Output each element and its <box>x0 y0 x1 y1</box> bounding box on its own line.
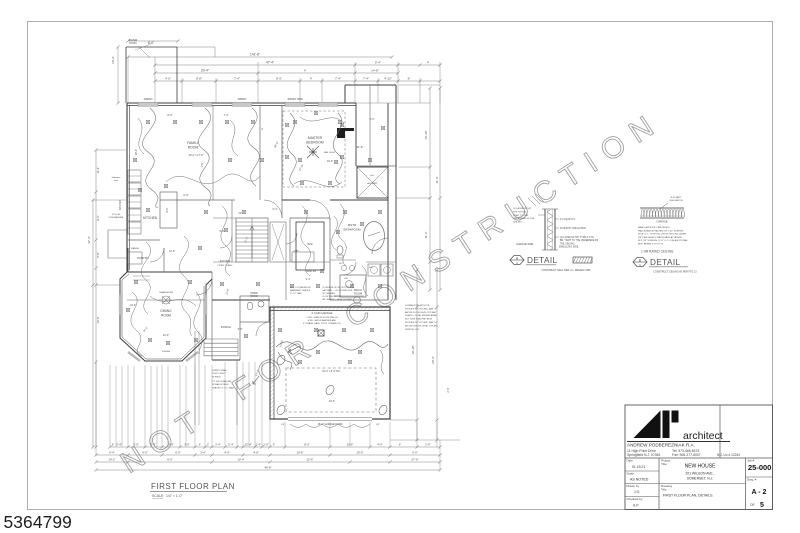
svg-text:12'-0": 12'-0" <box>163 334 169 337</box>
svg-text:3'-0": 3'-0" <box>238 328 243 331</box>
svg-text:DETAIL: DETAIL <box>650 258 681 267</box>
bathtub <box>364 222 385 251</box>
svg-text:ROOM: ROOM <box>161 314 171 318</box>
detail B ceiling strip <box>640 207 684 209</box>
pantry2 <box>285 262 287 300</box>
entry / porch <box>211 300 213 360</box>
small right side marks <box>396 197 430 199</box>
svg-text:N.J. Lic # 12244: N.J. Lic # 12244 <box>717 453 740 457</box>
svg-text:20'-4" x 17'-0": 20'-4" x 17'-0" <box>189 154 204 157</box>
svg-text:w/drawer: w/drawer <box>112 176 121 179</box>
svg-text:1 HR RATED CEILING: 1 HR RATED CEILING <box>641 250 674 254</box>
svg-text:P.T. WD & RAILING: P.T. WD & RAILING <box>212 380 231 383</box>
svg-text:R-30 BATT: R-30 BATT <box>671 196 682 199</box>
svg-text:14'-2": 14'-2" <box>108 458 115 462</box>
svg-text:WALLBOARD ATTACHED W/ 1 1/4" S: WALLBOARD ATTACHED W/ 1 1/4" SCREWS <box>638 229 684 232</box>
svg-text:42'-4": 42'-4" <box>87 236 91 244</box>
svg-text:5364799: 5364799 <box>4 512 72 532</box>
svg-text:8'-0": 8'-0" <box>304 443 310 447</box>
insulation batt zigzag <box>548 210 553 250</box>
dimension line 20-4 14-8 <box>155 72 398 74</box>
wavy curves central hall <box>221 206 231 276</box>
svg-text:KITCHEN: KITCHEN <box>119 199 122 210</box>
svg-text:6": 6" <box>408 77 411 81</box>
garage door opening <box>288 418 372 420</box>
svg-text:16'-4" x 8'-4" DO: 16'-4" x 8'-4" DO <box>322 370 340 373</box>
svg-text:PROVIDE 5/8"X10" ANC. BAR. 10": PROVIDE 5/8"X10" ANC. BAR. 10" <box>405 321 438 324</box>
svg-text:R-15 BATT. INSULATION: R-15 BATT. INSULATION <box>560 227 586 230</box>
svg-text:GB CEILING — SELF CLOSING: GB CEILING — SELF CLOSING <box>322 299 353 301</box>
svg-text:A - 2: A - 2 <box>752 489 767 496</box>
svg-text:INFO REFER TO FTG 13.: INFO REFER TO FTG 13. <box>638 244 664 246</box>
svg-text:store: store <box>114 179 120 182</box>
svg-text:IN FIELD: IN FIELD <box>212 376 221 378</box>
svg-text:20'-0": 20'-0" <box>356 451 363 455</box>
svg-text:23'-4": 23'-4" <box>329 400 335 403</box>
svg-text:SOMERSET, N.J.: SOMERSET, N.J. <box>687 477 714 481</box>
svg-text:FAMILY: FAMILY <box>187 141 200 145</box>
svg-text:2'-4": 2'-4" <box>446 387 450 392</box>
svg-text:4'-0": 4'-0" <box>165 77 171 81</box>
detail B hexagon callout <box>633 258 647 267</box>
svg-text:DWELLING SIDE: DWELLING SIDE <box>559 246 579 249</box>
svg-text:ROOM: ROOM <box>250 295 257 298</box>
svg-text:KITCHEN: KITCHEN <box>143 216 158 220</box>
svg-text:8'-0": 8'-0" <box>168 114 173 117</box>
svg-text:4'-0": 4'-0" <box>377 443 383 447</box>
svg-text:11'-6": 11'-6" <box>357 145 364 149</box>
svg-text:Job #: Job # <box>747 459 755 463</box>
svg-text:PULL-IN: PULL-IN <box>112 214 121 216</box>
svg-text:7'-4": 7'-4" <box>224 114 229 117</box>
svg-text:BEDROOM: BEDROOM <box>306 141 324 145</box>
svg-text:1'-6": 1'-6" <box>201 162 204 167</box>
svg-text:6'-4": 6'-4" <box>273 208 278 211</box>
svg-text:BD. TIGHT TO THE UNDERSIDE OF: BD. TIGHT TO THE UNDERSIDE OF <box>560 240 599 242</box>
svg-text:(1) LAYERS OF 5/8" GYP. BD. ON: (1) LAYERS OF 5/8" GYP. BD. ON <box>322 286 354 289</box>
svg-text:BATHROOM: BATHROOM <box>343 228 361 232</box>
svg-text:3050SH: 3050SH <box>238 98 247 101</box>
wall y=300 across house <box>127 299 206 301</box>
svg-text:UNDERSIDE OF THE: UNDERSIDE OF THE <box>513 218 535 220</box>
svg-text:3'-0": 3'-0" <box>184 443 190 447</box>
dimension line 47-4 <box>155 64 440 66</box>
svg-text:16'-0": 16'-0" <box>327 160 333 163</box>
svg-text:(1) LAYER OF 5/8" TYPE-X GYP.: (1) LAYER OF 5/8" TYPE-X GYP. <box>560 236 594 239</box>
svg-text:3050SH TWIN: 3050SH TWIN <box>287 98 303 101</box>
svg-text:1'-4": 1'-4" <box>255 443 261 447</box>
svg-text:20'-4": 20'-4" <box>201 69 209 73</box>
svg-text:H-PACK—TOTAL SPREAD AREA: H-PACK—TOTAL SPREAD AREA <box>405 314 437 317</box>
svg-text:Date: Date <box>627 459 634 463</box>
svg-text:3'-4": 3'-4" <box>168 443 174 447</box>
svg-text:2'-4": 2'-4" <box>215 443 221 447</box>
svg-text:GAR SIDE — (1) ON DWE SIDE: GAR SIDE — (1) ON DWE SIDE <box>322 289 353 292</box>
svg-text:9'-2": 9'-2" <box>96 215 100 220</box>
title block grid lines <box>719 405 721 458</box>
detail A right leaders <box>555 218 559 220</box>
svg-text:10'-2": 10'-2" <box>111 56 115 64</box>
toilet wc <box>337 246 343 254</box>
left dimension lines <box>95 150 97 447</box>
upper right vertical dims <box>429 88 431 290</box>
svg-text:(1) LAYER OF 5/8": (1) LAYER OF 5/8" <box>513 207 532 210</box>
svg-text:8'-0": 8'-0" <box>276 77 282 81</box>
svg-text:22'-6": 22'-6" <box>306 458 313 462</box>
svg-text:GARAGE: GARAGE <box>656 220 667 224</box>
svg-text:W/ 1 7/8" SCREWS @ 12" O.C. FO: W/ 1 7/8" SCREWS @ 12" O.C. FOR ADDITION… <box>638 239 689 242</box>
svg-text:2'-6": 2'-6" <box>425 443 431 447</box>
svg-text:6'-6": 6'-6" <box>183 193 188 197</box>
svg-text:3050SH: 3050SH <box>162 351 170 353</box>
svg-text:47'-4": 47'-4" <box>266 61 274 65</box>
svg-text:NOT TO TRADING W/: NOT TO TRADING W/ <box>290 286 311 289</box>
svg-text:DISHWASHER: DISHWASHER <box>109 216 124 219</box>
svg-text:THK GYP BD: THK GYP BD <box>513 211 527 213</box>
linen box <box>292 252 314 262</box>
garage post symbol <box>318 330 324 336</box>
svg-text:Drawn by: Drawn by <box>627 484 640 488</box>
scallops under garage door <box>290 424 370 428</box>
svg-text:5: 5 <box>760 502 764 509</box>
svg-text:25-000: 25-000 <box>748 463 771 472</box>
svg-text:6'-0": 6'-0" <box>175 451 181 455</box>
svg-text:7'-4": 7'-4" <box>335 77 341 81</box>
svg-text:Fax: 908-277-6007: Fax: 908-277-6007 <box>672 453 701 457</box>
svg-text:Scale: Scale <box>627 472 635 476</box>
stairs <box>236 218 268 262</box>
svg-text:4" GRAVEL BASE, PITCH TOWARD D: 4" GRAVEL BASE, PITCH TOWARD DR. <box>303 322 341 325</box>
svg-text:13'-6": 13'-6" <box>96 317 100 324</box>
svg-text:FAN LIGHT: FAN LIGHT <box>324 151 336 154</box>
svg-text:4'-10": 4'-10" <box>384 77 392 81</box>
dimension line 141-8 overall <box>128 56 392 58</box>
hallway walls <box>160 199 235 201</box>
svg-text:TIGHT TO THE: TIGHT TO THE <box>513 215 529 217</box>
svg-text:1/4" = 1'-0": 1/4" = 1'-0" <box>166 494 183 498</box>
svg-text:13'-6": 13'-6" <box>130 304 136 307</box>
ceiling fan symbol <box>307 146 319 158</box>
svg-text:11'-6": 11'-6" <box>424 231 428 238</box>
svg-text:11'-4": 11'-4" <box>435 176 439 183</box>
svg-text:DETAIL: DETAIL <box>527 256 558 265</box>
svg-text:3'-0": 3'-0" <box>133 443 139 447</box>
garage firewall hatch left <box>271 305 275 416</box>
garage circles <box>275 354 286 366</box>
title block outer frame <box>625 405 773 510</box>
svg-text:3'-4": 3'-4" <box>150 443 156 447</box>
svg-text:PORCH: PORCH <box>221 325 231 329</box>
wavy wiring curves family room <box>142 108 158 208</box>
svg-text:141'-8": 141'-8" <box>250 53 260 57</box>
svg-text:27'-6": 27'-6" <box>411 458 418 462</box>
wavy wiring curves master bedroom <box>287 113 296 186</box>
svg-text:CONSTRUCT CEILING AS PER FTG 1: CONSTRUCT CEILING AS PER FTG 13 <box>653 271 697 274</box>
svg-text:INSULATION: INSULATION <box>670 199 683 202</box>
svg-text:19'-10": 19'-10" <box>411 345 415 354</box>
hall walls around stairs <box>231 200 233 262</box>
svg-text:6'8": 6'8" <box>281 424 285 426</box>
svg-text:8'-6": 8'-6" <box>148 41 154 45</box>
svg-text:Dwg. #: Dwg. # <box>747 478 757 482</box>
svg-text:OPEN TO ABV: OPEN TO ABV <box>218 264 233 267</box>
svg-text:2'-4": 2'-4" <box>228 443 234 447</box>
laundry boxes <box>368 264 380 276</box>
svg-text:W/ BALUSTERS: W/ BALUSTERS <box>212 383 229 386</box>
svg-text:CEILING: CEILING <box>513 222 522 224</box>
svg-text:UP: UP <box>238 212 242 215</box>
master shower <box>357 167 388 198</box>
svg-text:SHOWER: SHOWER <box>367 183 377 185</box>
svg-text:2"x4"@16"O.C.: 2"x4"@16"O.C. <box>560 219 576 221</box>
detail A top-left tick marks <box>528 194 544 206</box>
front steps <box>204 338 238 340</box>
svg-text:B: B <box>639 258 641 262</box>
svg-text:AS NOTED: AS NOTED <box>630 478 649 482</box>
kitchen island <box>160 192 177 228</box>
svg-text:SCALE:: SCALE: <box>152 494 164 498</box>
svg-text:W/16" O.C. TO WOOD JOISTS SECO: W/16" O.C. TO WOOD JOISTS SECOND LAYER <box>638 233 686 236</box>
svg-text:2 CAR GARAGE: 2 CAR GARAGE <box>312 311 333 315</box>
svg-text:12'-6": 12'-6" <box>169 250 175 253</box>
bench mud <box>334 295 364 297</box>
detail A wall section <box>544 209 546 250</box>
extension lines down to dim rows <box>109 365 111 447</box>
svg-text:14'-8": 14'-8" <box>371 69 379 73</box>
powder room <box>240 296 269 322</box>
svg-text:CONC. SLAB W/ SLOPE MIN ON: CONC. SLAB W/ SLOPE MIN ON <box>306 316 338 319</box>
svg-text:BASE LAYER 5/8" FIRE-SHIELD: BASE LAYER 5/8" FIRE-SHIELD <box>638 226 671 229</box>
right exterior wall <box>387 103 389 300</box>
rule under logo <box>627 441 730 443</box>
outlet symbols <box>146 120 149 123</box>
svg-text:6": 6" <box>399 443 401 447</box>
bottom dimension rows <box>110 446 440 448</box>
vanity <box>330 259 356 261</box>
svg-text:1'-6": 1'-6" <box>263 443 269 447</box>
svg-text:ABOVE FLOOR LEVEL TOP ANT: ABOVE FLOOR LEVEL TOP ANT <box>405 311 437 314</box>
svg-text:CONSTRUCT WALL PER U.L. DESIGN: CONSTRUCT WALL PER U.L. DESIGN U305 <box>542 269 591 272</box>
svg-text:Springfield N.J. 07081: Springfield N.J. 07081 <box>627 453 660 457</box>
svg-text:Title: Title <box>661 462 667 466</box>
top-right wing walls <box>345 84 396 86</box>
svg-text:(1) ON THE WHITE: (1) ON THE WHITE <box>322 296 341 298</box>
mech room <box>340 275 366 297</box>
svg-text:2'-8": 2'-8" <box>294 250 299 253</box>
extra bottom-left vertical extension lines <box>115 366 117 447</box>
svg-text:OF THE WALL: OF THE WALL <box>322 292 337 295</box>
svg-text:9'-8": 9'-8" <box>220 230 225 233</box>
architect logo square <box>672 411 679 423</box>
mud hall walls <box>330 299 388 301</box>
svg-text:MSTR: MSTR <box>348 223 357 227</box>
architect logo triangle <box>634 411 661 439</box>
svg-text:PANTRY: PANTRY <box>305 269 316 273</box>
svg-text:Checked by: Checked by <box>627 497 643 501</box>
svg-text:A.P.: A.P. <box>633 504 639 508</box>
svg-text:GARAGE SIDE: GARAGE SIDE <box>516 243 534 246</box>
detail A hexagon callout <box>510 256 524 265</box>
svg-text:SPACED 4" O.C. MAX: SPACED 4" O.C. MAX <box>212 386 234 389</box>
dim 8-6 line above bay <box>128 40 178 42</box>
left small wall jog <box>108 229 127 231</box>
garage walls <box>270 307 390 419</box>
svg-text:6'-4": 6'-4" <box>109 451 115 455</box>
svg-text:6'-0": 6'-0" <box>412 451 418 455</box>
svg-text:16'-4": 16'-4" <box>135 149 138 155</box>
kitchen cabinets along left wall <box>128 170 141 182</box>
svg-text:ANDREW PODBEREZNIAK R.A.: ANDREW PODBEREZNIAK R.A. <box>627 443 695 448</box>
top exterior wall of house <box>127 102 356 104</box>
bay window marks <box>119 295 121 315</box>
svg-text:5'-8": 5'-8" <box>96 252 100 257</box>
svg-text:3'-4": 3'-4" <box>116 443 122 447</box>
svg-text:4'-8": 4'-8" <box>253 451 259 455</box>
svg-text:6": 6" <box>112 443 114 447</box>
svg-text:CHANDELIER: CHANDELIER <box>159 291 174 294</box>
north arrow-ish mark <box>253 376 259 384</box>
svg-text:BELOW CEILING LEVEL TOP ANT: BELOW CEILING LEVEL TOP ANT <box>405 324 438 327</box>
svg-text:6": 6" <box>273 443 275 447</box>
svg-text:9'-4": 9'-4" <box>306 278 311 281</box>
svg-text:10'-8": 10'-8" <box>296 451 303 455</box>
chandelier symbol <box>162 296 170 304</box>
master bedroom walls <box>281 105 283 200</box>
svg-text:3050SH: 3050SH <box>144 98 153 101</box>
top-left patio bay <box>126 46 177 48</box>
svg-text:RANGE: RANGE <box>131 247 139 250</box>
svg-text:WIC: WIC <box>307 242 312 246</box>
porch columns/rails going down <box>194 331 196 425</box>
svg-text:3'-4": 3'-4" <box>200 451 206 455</box>
svg-text:8'-8": 8'-8" <box>196 77 202 81</box>
dimension line segments <box>155 80 440 82</box>
svg-text:201 WILSON AVE.,: 201 WILSON AVE., <box>685 472 714 476</box>
svg-text:ROOM: ROOM <box>188 146 199 150</box>
svg-text:11'-4": 11'-4" <box>96 167 100 174</box>
svg-text:10'-4": 10'-4" <box>237 458 244 462</box>
hall door arcs <box>220 236 232 248</box>
fireplace black element <box>337 128 354 138</box>
kitchen counter lower <box>128 239 160 241</box>
svg-text:FIRST FLOOR PLAN, DETAILS.: FIRST FLOOR PLAN, DETAILS. <box>663 494 713 498</box>
svg-text:20'-4": 20'-4" <box>431 356 435 364</box>
extension line wing top <box>399 84 440 86</box>
door arcs <box>310 200 330 220</box>
wavy curves kitchen/dining <box>141 242 150 314</box>
svg-text:9'-0": 9'-0" <box>165 207 169 212</box>
svg-text:VENTING OUT.: VENTING OUT. <box>405 329 420 331</box>
architect logo bar <box>663 411 670 439</box>
svg-text:6 MIL. VAPOR BARRIER AND: 6 MIL. VAPOR BARRIER AND <box>308 319 337 322</box>
svg-text:46'-8": 46'-8" <box>264 466 271 470</box>
right vertical dims near garage <box>416 270 418 440</box>
svg-text:5'-0": 5'-0" <box>370 118 375 121</box>
detail A hatched chip <box>573 257 592 263</box>
svg-text:16'-10": 16'-10" <box>424 130 428 139</box>
svg-text:6'8": 6'8" <box>376 424 380 426</box>
svg-text:01.19.21: 01.19.21 <box>632 465 645 469</box>
svg-text:HW: HW <box>344 278 347 280</box>
svg-text:OF: OF <box>750 503 755 507</box>
closet next to stairs <box>270 222 286 262</box>
slope arrow <box>288 346 300 354</box>
interior wall family/master <box>259 105 261 200</box>
dining room bay walls <box>120 272 212 361</box>
WIC walls <box>289 218 291 262</box>
svg-text:MASTER: MASTER <box>308 136 323 140</box>
svg-text:4'-0": 4'-0" <box>224 451 230 455</box>
garage interior dashed attic access <box>286 368 376 412</box>
svg-text:FIRST FLOOR PLAN: FIRST FLOOR PLAN <box>151 482 235 491</box>
svg-text:7'-4": 7'-4" <box>363 77 369 81</box>
svg-text:6": 6" <box>199 443 201 447</box>
svg-text:7'-4": 7'-4" <box>234 77 240 81</box>
svg-text:WC: WC <box>339 263 343 265</box>
left exterior wall <box>126 103 128 272</box>
svg-text:5/8" FIRE-SHIELD WALLBOARD ATT: 5/8" FIRE-SHIELD WALLBOARD ATTACHED <box>638 236 683 239</box>
svg-text:5'-4": 5'-4" <box>375 61 381 65</box>
watermark NOT FOR CONSTRUCTION <box>115 104 669 480</box>
svg-text:ROOM: ROOM <box>354 292 362 296</box>
svg-text:MECH: MECH <box>354 288 362 292</box>
svg-text:architect: architect <box>683 430 723 442</box>
svg-text:Title: Title <box>661 487 667 491</box>
wavy line garage <box>276 341 388 350</box>
svg-text:BASEMENT SPACES: BASEMENT SPACES <box>290 289 311 292</box>
svg-text:PORT LIGHT: PORT LIGHT <box>212 373 226 375</box>
svg-text:J.O.: J.O. <box>634 490 640 494</box>
svg-text:PROVIDE 5/8"X10" ANC. BAR "X": PROVIDE 5/8"X10" ANC. BAR "X" <box>405 307 437 310</box>
svg-text:PATIO: PATIO <box>129 41 136 45</box>
svg-text:NEW HOUSE: NEW HOUSE <box>685 464 717 470</box>
svg-text:DINING: DINING <box>160 309 172 313</box>
svg-text:4" O.C. MAX: 4" O.C. MAX <box>290 292 302 295</box>
svg-text:6'-0": 6'-0" <box>167 458 173 462</box>
pantry walls <box>127 271 212 273</box>
svg-text:NOT LESS THAN FBD BB IN: NOT LESS THAN FBD BB IN <box>405 318 433 321</box>
svg-text:6'-0": 6'-0" <box>142 451 148 455</box>
